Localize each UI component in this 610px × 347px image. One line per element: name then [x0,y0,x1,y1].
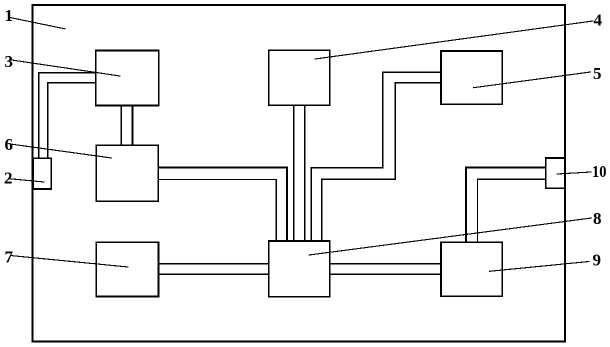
wire block2 to block3 (inner line) [48,83,96,159]
leader line 8 [309,218,592,255]
wire block7 to block8 (lower line) [159,273,269,275]
wire block5 to block8 (upper line) [311,72,441,241]
wire block3 to block6 (right line) [132,105,134,145]
svg-text:7: 7 [5,248,14,267]
wire block7 to block8 (upper line) [159,263,269,265]
wire block6 to block8 (upper line) [159,168,287,241]
svg-text:4: 4 [594,11,603,30]
leader line 1 [10,18,65,29]
leader line 3 [12,60,120,76]
wire block10 to block9 (upper line) [466,168,546,243]
leader line 4 [315,21,593,59]
leader line 5 [474,72,591,88]
svg-text:2: 2 [4,169,13,188]
wire block4 to block8 (left line) [293,105,295,241]
svg-text:1: 1 [5,6,14,25]
svg-text:8: 8 [593,209,602,228]
wire block10 to block9 (lower line) [478,179,546,242]
wire block8 to block9 (lower line) [330,273,441,275]
block 4 [269,50,330,105]
leader line 6 [10,144,111,158]
svg-text:10: 10 [592,162,607,181]
wire block8 to block9 (upper line) [330,263,441,265]
leader line 9 [490,262,590,272]
block 8 [269,241,330,297]
wire block6 to block8 (lower line) [159,179,276,241]
leader line 2 [9,179,44,182]
wire block5 to block8 (lower line) [322,83,441,241]
block 9 [441,242,502,296]
wire block4 to block8 (right line) [304,105,306,241]
svg-text:3: 3 [5,52,14,71]
block 7 [96,242,158,296]
leader line 7 [12,256,129,267]
block 2 [33,158,51,189]
block 6 [96,145,158,201]
block 3 [96,50,159,105]
svg-text:5: 5 [593,64,602,83]
svg-text:9: 9 [593,251,602,270]
block 10 [546,158,566,188]
svg-text:6: 6 [5,135,14,154]
wire block3 to block6 (left line) [120,105,122,145]
wire block2 to block3 (outer line) [39,73,96,159]
leader line 10 [557,172,591,174]
block 5 [441,51,502,104]
